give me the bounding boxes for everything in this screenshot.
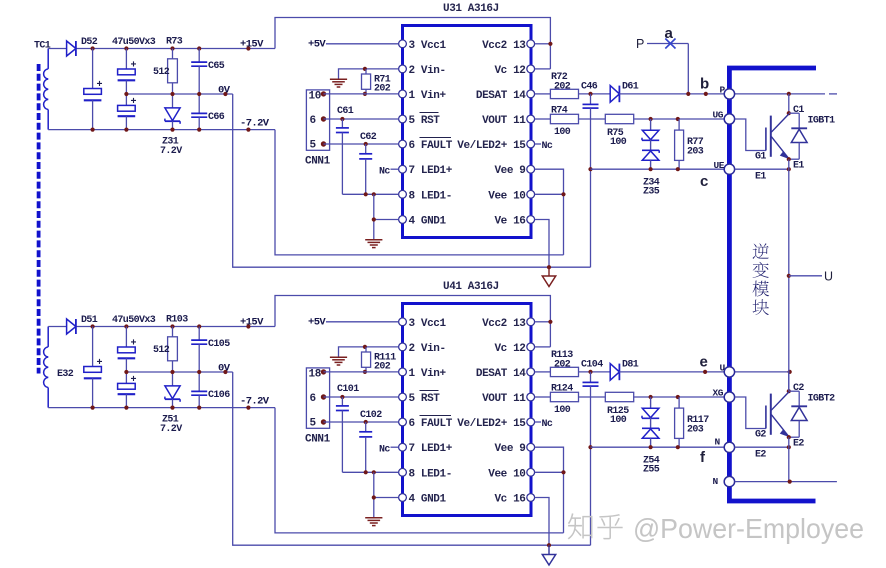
svg-text:2 Vin-: 2 Vin- — [409, 65, 446, 77]
svg-text:C46: C46 — [581, 81, 598, 92]
resistor R113 202 (DESAT) — [535, 367, 611, 376]
svg-text:-7.2V: -7.2V — [240, 118, 270, 130]
svg-text:2 Vin-: 2 Vin- — [409, 343, 446, 355]
svg-text:E1: E1 — [755, 172, 766, 183]
svg-text:D81: D81 — [622, 359, 639, 370]
wire collector feed C2 — [788, 372, 790, 391]
capacitor C106 — [191, 372, 207, 408]
wire phase output U vertical — [788, 159, 790, 391]
resistor R125 100 — [605, 392, 724, 401]
diode D61 — [610, 86, 724, 103]
pin 6 FAULT (left) — [399, 418, 407, 426]
wire Vee pin 10 — [535, 193, 564, 195]
pin 3 Vcc1 (left) — [399, 40, 407, 48]
svg-text:7 LED1+: 7 LED1+ — [409, 443, 453, 455]
pin 2 Vin- (left) — [399, 343, 407, 351]
svg-text:Z55: Z55 — [643, 465, 660, 476]
svg-text:Vcc2 13: Vcc2 13 — [482, 318, 526, 330]
transistor Q IGBT IGBT1 — [735, 114, 789, 159]
node N — [724, 476, 734, 486]
pin Vcc2 13 (right) — [527, 318, 535, 326]
wire +15V up to chip supply line — [275, 296, 550, 347]
pin 1 Vin+ (left) — [399, 90, 407, 98]
svg-text:3 Vcc1: 3 Vcc1 — [409, 40, 447, 52]
transistor Q IGBT IGBT2 — [735, 392, 789, 437]
svg-text:8 LED1-: 8 LED1- — [409, 190, 452, 202]
svg-text:100: 100 — [554, 405, 571, 416]
pin 5 RST (left) — [399, 115, 407, 123]
svg-text:Vee 9: Vee 9 — [494, 443, 525, 455]
wire -7.2V down-right routing — [275, 130, 564, 255]
electrolytic capacitor 47u (upper) — [118, 49, 137, 95]
node U — [724, 367, 734, 377]
resistor R111 202 — [362, 347, 371, 372]
wire CNN1 pin 6 to RST — [324, 118, 399, 120]
wire -7.2V down-right routing — [275, 408, 564, 533]
svg-text:G2: G2 — [755, 430, 766, 441]
svg-text:a: a — [665, 25, 674, 42]
svg-text:512: 512 — [153, 67, 170, 78]
wire collector feed C1 — [788, 94, 790, 113]
svg-text:U31 A316J: U31 A316J — [443, 3, 499, 15]
wire +5V to pin 3 — [326, 321, 399, 323]
earth terminal (emitter 0V, lower) — [542, 545, 555, 565]
ground (Vin- pulldown) — [330, 356, 347, 358]
svg-text:6: 6 — [310, 115, 316, 127]
pin 5 RST (left) — [399, 393, 407, 401]
op-amp U: gate driver IC U31 A316J — [403, 26, 532, 238]
wire Vee pin 9 routing — [535, 447, 564, 533]
svg-text:R73: R73 — [166, 37, 183, 48]
wire LED1- line — [342, 193, 398, 195]
pin Vee 9 (right) — [527, 443, 535, 451]
svg-text:+15V: +15V — [240, 317, 264, 329]
svg-text:VOUT 11: VOUT 11 — [482, 393, 526, 405]
wire bus P to right (dashed end) — [735, 93, 825, 95]
svg-text:Nc: Nc — [542, 141, 553, 152]
wire emitter-sense line — [591, 446, 725, 448]
svg-text:N: N — [715, 437, 721, 448]
svg-text:Vc 12: Vc 12 — [494, 343, 525, 355]
ground (GND1) — [365, 239, 382, 241]
svg-text:7 LED1+: 7 LED1+ — [409, 165, 453, 177]
pin VOUT 11 (right) — [527, 115, 535, 123]
inverter module bus bar (thick) — [729, 68, 816, 501]
wire 0V down-right routing — [233, 94, 549, 267]
zener diode Z51 7.2V — [165, 372, 180, 408]
resistor R71 202 — [362, 69, 371, 94]
svg-text:CNN1: CNN1 — [305, 434, 331, 446]
svg-text:Ve/LED2+ 15: Ve/LED2+ 15 — [457, 418, 526, 430]
svg-text:U: U — [824, 270, 833, 284]
wire +15V up to chip supply line — [275, 18, 550, 69]
node UG — [724, 114, 734, 124]
capacitor C61 — [336, 119, 349, 194]
wire Vee pin 10 — [535, 471, 564, 473]
freewheel diode of IGBT1 — [789, 113, 807, 159]
svg-text:+5V: +5V — [308, 39, 326, 51]
svg-text:+: + — [97, 358, 103, 369]
svg-text:5 RST: 5 RST — [409, 393, 441, 405]
svg-text:100: 100 — [610, 137, 627, 148]
svg-text:7.2V: 7.2V — [160, 424, 182, 435]
svg-text:Nc: Nc — [542, 419, 553, 430]
pin Vee 10 (right) — [527, 468, 535, 476]
svg-text:R103: R103 — [166, 315, 188, 326]
svg-text:IGBT2: IGBT2 — [808, 394, 836, 405]
pin Ve 16 (right) — [527, 216, 535, 224]
pin Vee 10 (right) — [527, 190, 535, 198]
svg-text:5 RST: 5 RST — [409, 115, 441, 127]
svg-text:Vee 10: Vee 10 — [488, 190, 525, 202]
zener diodes Z54 Z55 (gate clamp) — [642, 397, 659, 447]
earth terminal (emitter 0V, upper) — [542, 267, 555, 286]
svg-text:202: 202 — [554, 359, 571, 370]
svg-text:R74: R74 — [551, 106, 568, 117]
svg-text:Nc: Nc — [379, 445, 390, 456]
svg-text:c: c — [700, 173, 708, 190]
svg-text:D52: D52 — [81, 37, 98, 48]
pin 7 LED1+ (left) — [399, 165, 407, 173]
wire pin 2 Vin- to ground — [339, 69, 399, 79]
connector CNN1 (pins 10,6,5) — [306, 90, 329, 152]
pin Vc 12 (right) — [527, 343, 535, 351]
wire pin 2 Vin- to ground — [339, 347, 399, 357]
svg-text:UE: UE — [714, 160, 725, 171]
pin Vcc2 13 (right) — [527, 40, 535, 48]
svg-text:1 Vin+: 1 Vin+ — [409, 90, 447, 102]
svg-text:5: 5 — [310, 140, 317, 152]
wire -7.2V rail — [48, 129, 275, 131]
wire GND1 to ground — [374, 497, 399, 499]
electrolytic capacitor E31 — [84, 49, 103, 130]
resistor R74 100 — [535, 114, 606, 123]
wire 0V down-right routing — [233, 372, 549, 545]
svg-text:Vcc2 13: Vcc2 13 — [482, 40, 526, 52]
svg-text:100: 100 — [610, 415, 627, 426]
svg-text:U41 A316J: U41 A316J — [443, 281, 499, 293]
pin VOUT 11 (right) — [527, 393, 535, 401]
wire 0V line — [126, 371, 232, 373]
svg-text:C62: C62 — [360, 132, 377, 143]
ground (Vin- pulldown) — [330, 78, 347, 80]
wire Vee pin 9 routing — [535, 169, 564, 255]
wire LED1- line — [342, 471, 398, 473]
svg-text:47u50Vx3: 47u50Vx3 — [112, 315, 156, 326]
svg-text:10: 10 — [309, 91, 321, 103]
svg-text:e: e — [700, 354, 708, 371]
svg-text:C61: C61 — [337, 106, 354, 117]
svg-text:Vc 12: Vc 12 — [494, 65, 525, 77]
connector CNN1 (pins 18,6,5) — [306, 368, 329, 430]
svg-text:DESAT 14: DESAT 14 — [476, 90, 526, 102]
svg-text:+: + — [131, 97, 137, 108]
svg-text:+5V: +5V — [308, 317, 326, 329]
resistor R117 203 (gate-emitter) — [675, 397, 684, 447]
svg-text:U: U — [720, 363, 726, 374]
pin 1 Vin+ (left) — [399, 368, 407, 376]
wire N bus line — [735, 481, 837, 483]
wire 0V line — [126, 93, 232, 95]
capacitor C102 — [359, 422, 372, 472]
zener diode Z31 7.2V — [165, 94, 180, 130]
electrolytic capacitor E32 — [84, 327, 103, 408]
capacitor C66 — [191, 94, 207, 130]
capacitor C104 (DESAT blanking) — [583, 372, 599, 545]
svg-text:C65: C65 — [208, 61, 225, 72]
wire +5V to pin 3 — [326, 43, 399, 45]
pin 8 LED1- (left) — [399, 190, 407, 198]
svg-text:Vee 10: Vee 10 — [488, 468, 525, 480]
capacitor C105 — [191, 327, 207, 373]
pin Ve/LED2+ 15 (right) — [527, 418, 535, 426]
svg-text:C106: C106 — [208, 390, 230, 401]
pin 2 Vin- (left) — [399, 65, 407, 73]
wire Vcc2/Vc supply — [535, 321, 551, 323]
svg-text:+15V: +15V — [240, 39, 264, 51]
svg-text:5: 5 — [310, 418, 317, 430]
resistor R124 100 — [535, 392, 606, 401]
svg-text:@Power-Employee: @Power-Employee — [633, 513, 864, 544]
svg-text:IGBT1: IGBT1 — [808, 116, 836, 127]
wire CNN1 pin 18 to Vin+ — [324, 371, 399, 373]
svg-text:P: P — [720, 85, 726, 96]
svg-text:Ve/LED2+ 15: Ve/LED2+ 15 — [457, 140, 526, 152]
svg-text:203: 203 — [687, 425, 704, 436]
svg-text:P: P — [636, 37, 644, 51]
capacitor C65 — [191, 49, 207, 95]
resistor R75 100 — [605, 114, 724, 123]
svg-text:E2: E2 — [755, 450, 766, 461]
svg-text:-7.2V: -7.2V — [240, 396, 270, 408]
svg-text:N: N — [713, 476, 719, 487]
svg-text:Vc 16: Vc 16 — [494, 494, 525, 506]
junction dots on +15V rail — [91, 46, 95, 50]
wire CNN1 pin 6 to RST — [324, 396, 399, 398]
svg-text:E32: E32 — [57, 369, 74, 380]
wire emitter to node line — [735, 168, 789, 170]
svg-text:Nc: Nc — [379, 167, 390, 178]
svg-text:C101: C101 — [337, 384, 359, 395]
wire Vcc2/Vc supply — [535, 43, 551, 45]
ground (GND1) — [365, 517, 382, 519]
svg-text:C104: C104 — [581, 359, 603, 370]
wire GND1 to ground — [374, 219, 399, 221]
svg-text:4 GND1: 4 GND1 — [409, 216, 447, 228]
pin Vee 9 (right) — [527, 165, 535, 173]
pin DESAT 14 (right) — [527, 368, 535, 376]
svg-text:+: + — [131, 339, 137, 350]
wire -7.2V rail — [48, 407, 275, 409]
svg-text:UG: UG — [713, 110, 724, 121]
capacitor C62 — [359, 144, 372, 194]
svg-text:0V: 0V — [218, 363, 231, 375]
svg-text:Ve 16: Ve 16 — [494, 216, 525, 228]
svg-text:202: 202 — [374, 362, 391, 373]
svg-text:+: + — [131, 61, 137, 72]
svg-text:C66: C66 — [208, 112, 225, 123]
node N — [724, 442, 734, 452]
svg-text:TC1: TC1 — [34, 41, 51, 52]
op-amp U: gate driver IC U41 A316J — [403, 304, 532, 516]
pin 4 GND1 (left) — [399, 216, 407, 224]
svg-text:+: + — [97, 80, 103, 91]
svg-text:18: 18 — [309, 369, 322, 381]
svg-text:Vee 9: Vee 9 — [494, 165, 525, 177]
pin 7 LED1+ (left) — [399, 443, 407, 451]
svg-text:100: 100 — [554, 127, 571, 138]
diode D81 — [610, 364, 724, 381]
svg-text:E2: E2 — [793, 439, 804, 450]
svg-text:D61: D61 — [622, 81, 639, 92]
wire U line to IGBT2 collector — [735, 371, 790, 373]
transformer winding TC1 — [44, 49, 49, 130]
svg-text:G1: G1 — [755, 152, 766, 163]
capacitor C101 — [336, 397, 349, 472]
resistor R77 203 (gate-emitter) — [675, 119, 684, 169]
diode D52 — [67, 41, 76, 56]
pin Vc 12 (right) — [527, 65, 535, 73]
resistor R72 202 (DESAT) — [535, 89, 611, 98]
pin 3 Vcc1 (left) — [399, 318, 407, 326]
svg-text:47u50Vx3: 47u50Vx3 — [112, 37, 156, 48]
electrolytic capacitor 47u (upper) — [118, 327, 137, 373]
pin 4 GND1 (left) — [399, 494, 407, 502]
electrolytic capacitor 47u (lower) — [118, 94, 137, 130]
svg-text:DESAT 14: DESAT 14 — [476, 368, 526, 380]
label Nc at Ve/LED2+ — [535, 143, 541, 145]
electrolytic capacitor 47u (lower) — [118, 372, 137, 408]
wire a drop to bus P — [687, 44, 689, 94]
wire emitter to node line — [735, 446, 789, 448]
svg-text:Z35: Z35 — [643, 187, 660, 198]
resistor R103 512 — [168, 327, 178, 373]
pin Ve/LED2+ 15 (right) — [527, 140, 535, 148]
svg-text:CNN1: CNN1 — [305, 156, 331, 168]
junction dots on +15V rail — [91, 324, 95, 328]
watermark 知乎 @Power-Employee — [568, 514, 592, 539]
svg-text:E1: E1 — [793, 161, 804, 172]
svg-text:6 FAULT: 6 FAULT — [409, 418, 453, 430]
node UE — [724, 164, 734, 174]
svg-text:b: b — [700, 76, 709, 93]
freewheel diode of IGBT2 — [789, 391, 807, 437]
svg-text:XG: XG — [713, 388, 724, 399]
svg-text:202: 202 — [374, 84, 391, 95]
wire emitter IGBT2 down to N bus — [788, 437, 790, 481]
svg-text:C105: C105 — [208, 339, 230, 350]
diode D51 — [67, 319, 76, 334]
svg-text:8 LED1-: 8 LED1- — [409, 468, 452, 480]
pin 6 FAULT (left) — [399, 140, 407, 148]
wire emitter-sense line — [591, 168, 725, 170]
wire CNN1 pin 5 to FAULT — [324, 143, 399, 145]
svg-text:202: 202 — [554, 81, 571, 92]
wire Ve pin 16 routing — [535, 220, 549, 268]
capacitor C46 (DESAT blanking) — [583, 94, 599, 267]
svg-text:1 Vin+: 1 Vin+ — [409, 368, 447, 380]
wire +15V rail — [48, 48, 66, 50]
node XG — [724, 392, 734, 402]
transformer winding TC1 lower winding — [44, 327, 49, 408]
wire +15V rail — [48, 326, 66, 328]
transformer core (dashed line) — [37, 64, 41, 374]
wire U tap — [789, 275, 822, 277]
svg-text:D51: D51 — [81, 315, 98, 326]
node P — [724, 89, 734, 99]
wire Ve pin 16 routing — [535, 498, 549, 546]
svg-text:7.2V: 7.2V — [160, 146, 182, 157]
svg-text:+: + — [131, 375, 137, 386]
node a (fuse/link symbol) on P feed — [647, 39, 688, 49]
svg-text:6 FAULT: 6 FAULT — [409, 140, 453, 152]
svg-text:VOUT 11: VOUT 11 — [482, 115, 526, 127]
label 逆变模块 (inverter module) — [753, 243, 769, 259]
wire CNN1 pin 10 to Vin+ — [324, 93, 399, 95]
svg-text:6: 6 — [310, 393, 316, 405]
svg-text:C102: C102 — [360, 410, 382, 421]
label Nc at Ve/LED2+ — [535, 421, 541, 423]
zener diodes Z34 Z35 (gate clamp) — [642, 119, 659, 169]
wire CNN1 pin 5 to FAULT — [324, 421, 399, 423]
resistor R73 512 — [168, 49, 178, 95]
svg-text:512: 512 — [153, 345, 170, 356]
pin DESAT 14 (right) — [527, 90, 535, 98]
svg-text:3 Vcc1: 3 Vcc1 — [409, 318, 447, 330]
svg-text:203: 203 — [687, 147, 704, 158]
svg-text:4 GND1: 4 GND1 — [409, 494, 447, 506]
svg-text:R124: R124 — [551, 384, 573, 395]
pin Vc 16 (right) — [527, 494, 535, 502]
pin 8 LED1- (left) — [399, 468, 407, 476]
svg-text:0V: 0V — [218, 85, 231, 97]
